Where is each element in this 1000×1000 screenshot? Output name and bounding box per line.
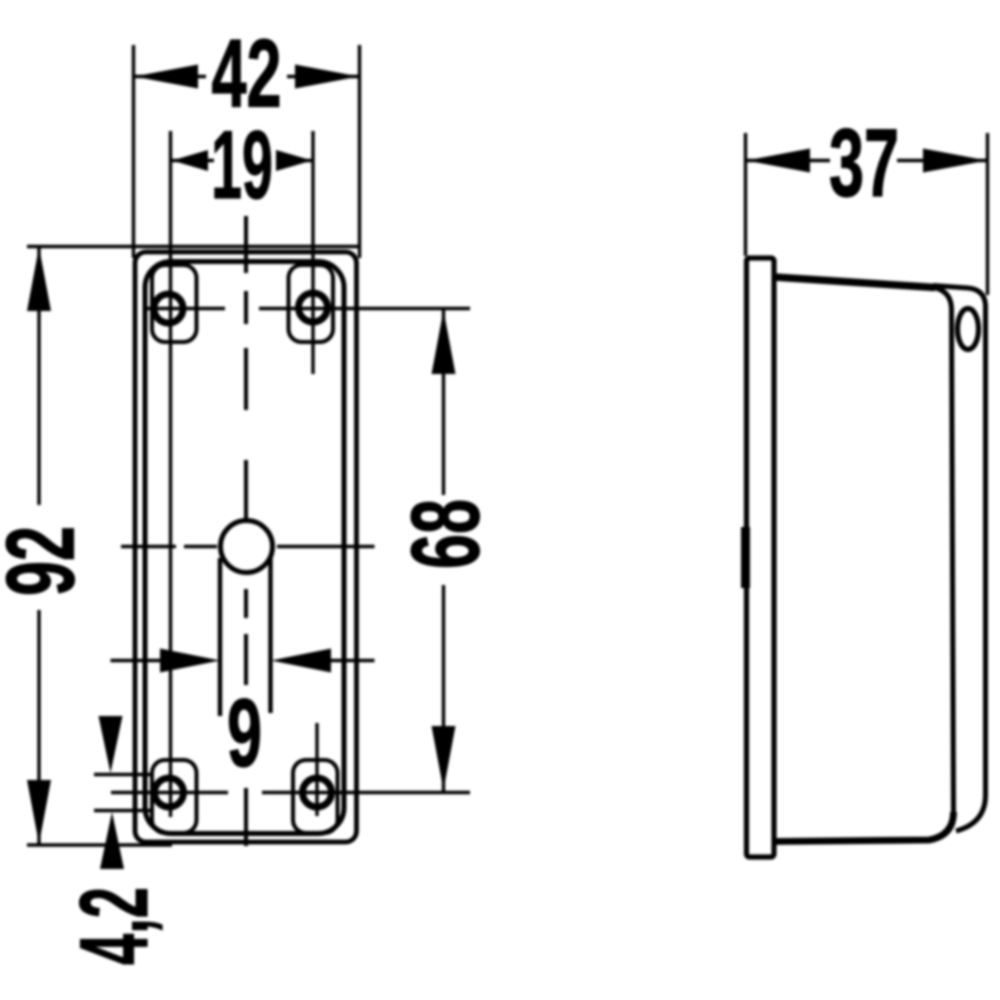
svg-text:4,2: 4,2 [60,887,168,965]
svg-text:92: 92 [0,526,95,596]
svg-text:9: 9 [227,679,262,787]
svg-text:19: 19 [211,111,273,219]
svg-text:68: 68 [392,499,500,569]
svg-text:37: 37 [829,109,899,217]
